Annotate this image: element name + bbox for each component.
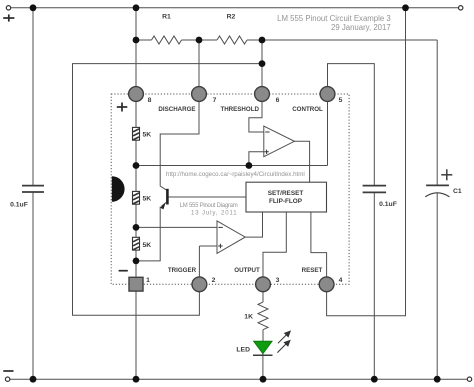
svg-text:29 January, 2017: 29 January, 2017 — [331, 23, 391, 32]
svg-text:C1: C1 — [453, 188, 462, 195]
svg-text:R2: R2 — [227, 14, 236, 21]
svg-text:R1: R1 — [162, 14, 171, 21]
svg-text:13 July, 2011: 13 July, 2011 — [191, 211, 238, 217]
svg-text:TRIGGER: TRIGGER — [168, 267, 197, 274]
svg-text:5K: 5K — [143, 131, 152, 138]
svg-text:6: 6 — [276, 97, 280, 104]
svg-text:3: 3 — [276, 277, 280, 284]
svg-text:LED: LED — [236, 346, 250, 353]
svg-text:DISCHARGE: DISCHARGE — [158, 106, 195, 113]
svg-text:LM 555 Pinout Diagram: LM 555 Pinout Diagram — [180, 203, 238, 209]
svg-text:FLIP-FLOP: FLIP-FLOP — [269, 198, 303, 205]
svg-text:0.1uF: 0.1uF — [379, 201, 397, 208]
svg-text:1K: 1K — [244, 314, 253, 321]
svg-text:2: 2 — [212, 277, 216, 284]
svg-text:5: 5 — [339, 97, 343, 104]
svg-text:1: 1 — [146, 277, 150, 284]
svg-text:0.1uF: 0.1uF — [10, 202, 28, 209]
svg-text:THRESHOLD: THRESHOLD — [220, 106, 259, 113]
svg-text:LM 555 Pinout Circuit Example: LM 555 Pinout Circuit Example 3 — [277, 14, 391, 23]
svg-text:CONTROL: CONTROL — [292, 106, 323, 113]
svg-text:7: 7 — [213, 97, 217, 104]
svg-text:RESET: RESET — [302, 267, 323, 274]
svg-text:4: 4 — [339, 277, 343, 284]
svg-text:http://home.cogeco.ca/~rpaisle: http://home.cogeco.ca/~rpaisley4/Circuit… — [166, 171, 305, 178]
svg-text:5K: 5K — [143, 242, 152, 249]
svg-text:5K: 5K — [143, 195, 152, 202]
svg-text:8: 8 — [148, 97, 152, 104]
svg-text:SET/RESET: SET/RESET — [268, 190, 304, 197]
svg-text:OUTPUT: OUTPUT — [234, 267, 260, 274]
